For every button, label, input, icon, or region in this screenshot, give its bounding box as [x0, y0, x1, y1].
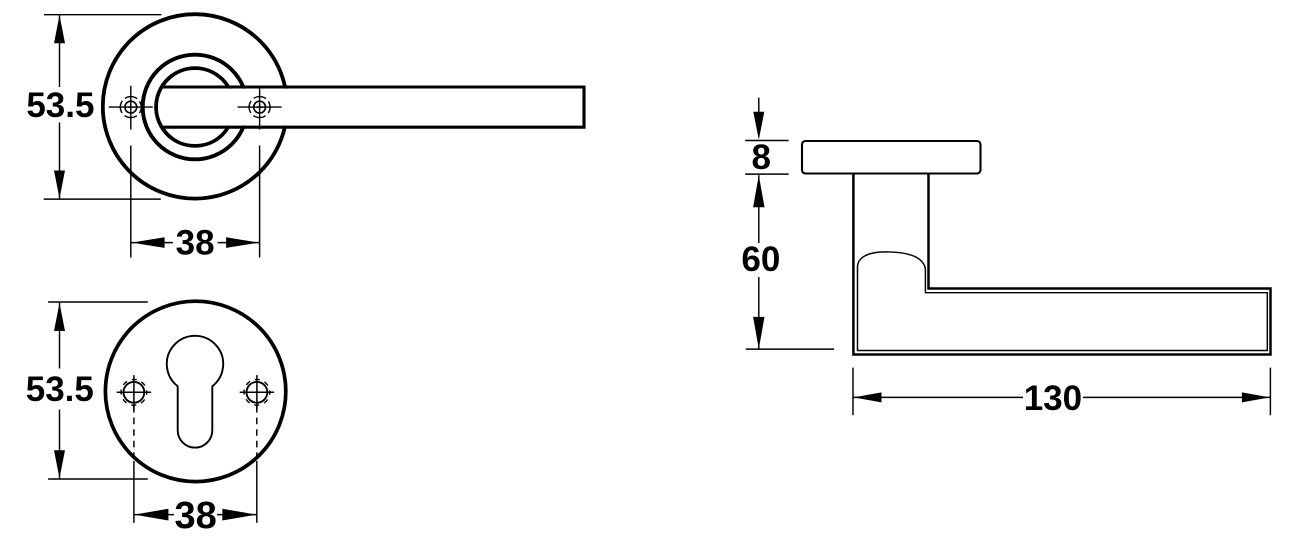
arrow up [54, 15, 65, 43]
arrow down (above) [753, 112, 764, 140]
arrow right [222, 509, 256, 521]
screw hole symbol right (front view) [238, 86, 282, 130]
arrow down [54, 171, 65, 199]
euro profile cylinder hole [167, 336, 223, 448]
dashed extension right [256, 406, 258, 461]
svg-text:53.5: 53.5 [26, 370, 94, 409]
dimension 53.5 (escutcheon) [48, 302, 148, 479]
arrow left [854, 392, 882, 402]
extension line right [259, 146, 261, 258]
handle outer profile (side) [853, 174, 1270, 355]
lever bar outline [162, 87, 584, 127]
extension line bottom [44, 198, 161, 200]
arrow left [134, 509, 168, 521]
screw hole symbol right (escutcheon) [240, 375, 274, 409]
dimension 8 (side) [745, 98, 789, 174]
upper leader line [758, 98, 760, 113]
extension line left [130, 146, 132, 258]
arrow down [54, 450, 65, 478]
extension line top [44, 14, 161, 16]
extension line top [745, 140, 789, 142]
arrow up [54, 303, 65, 331]
dimension line [131, 242, 173, 244]
rose collar circle [143, 55, 248, 160]
dimension 53.5 (front view) [44, 15, 162, 199]
handle inner edge line (side) [858, 252, 1268, 351]
arrow right [1242, 392, 1270, 402]
extension line left [852, 368, 854, 416]
rose plate (side) [802, 141, 981, 174]
extension line right [1269, 368, 1271, 416]
dashed extension left [133, 406, 135, 461]
dimension 60 (side) [746, 175, 834, 349]
neck circle [156, 68, 234, 146]
extension line bottom [746, 348, 834, 350]
dimension line [59, 15, 61, 87]
svg-text:38: 38 [176, 223, 215, 262]
extension line top [48, 301, 148, 303]
screw hole symbol left (front view) [109, 86, 153, 130]
dimension line [134, 514, 174, 516]
svg-text:130: 130 [1024, 379, 1082, 418]
svg-text:8: 8 [751, 138, 770, 177]
svg-text:38: 38 [174, 495, 216, 537]
lever bar white mask [158, 89, 583, 126]
arrow up [753, 175, 764, 207]
dimension 38 (front view) [131, 146, 260, 258]
extension line bottom [48, 478, 148, 480]
dimension line [59, 303, 61, 369]
rose outer circle [103, 14, 287, 198]
solid extension right [256, 461, 258, 523]
dimension line [853, 396, 1023, 398]
dimension 38 (escutcheon) [134, 406, 257, 523]
solid extension left [133, 461, 135, 523]
screw hole symbol left (escutcheon) [117, 375, 151, 409]
neck circle left arc (visible through bar) [156, 75, 173, 139]
escutcheon circle [105, 301, 285, 481]
dimension 130 (side) [853, 368, 1270, 416]
svg-text:60: 60 [741, 240, 780, 279]
arrow right [226, 237, 259, 248]
svg-text:53.5: 53.5 [26, 86, 94, 125]
arrow down [753, 317, 764, 349]
arrow left [132, 237, 165, 248]
extension line bottom [745, 173, 789, 175]
